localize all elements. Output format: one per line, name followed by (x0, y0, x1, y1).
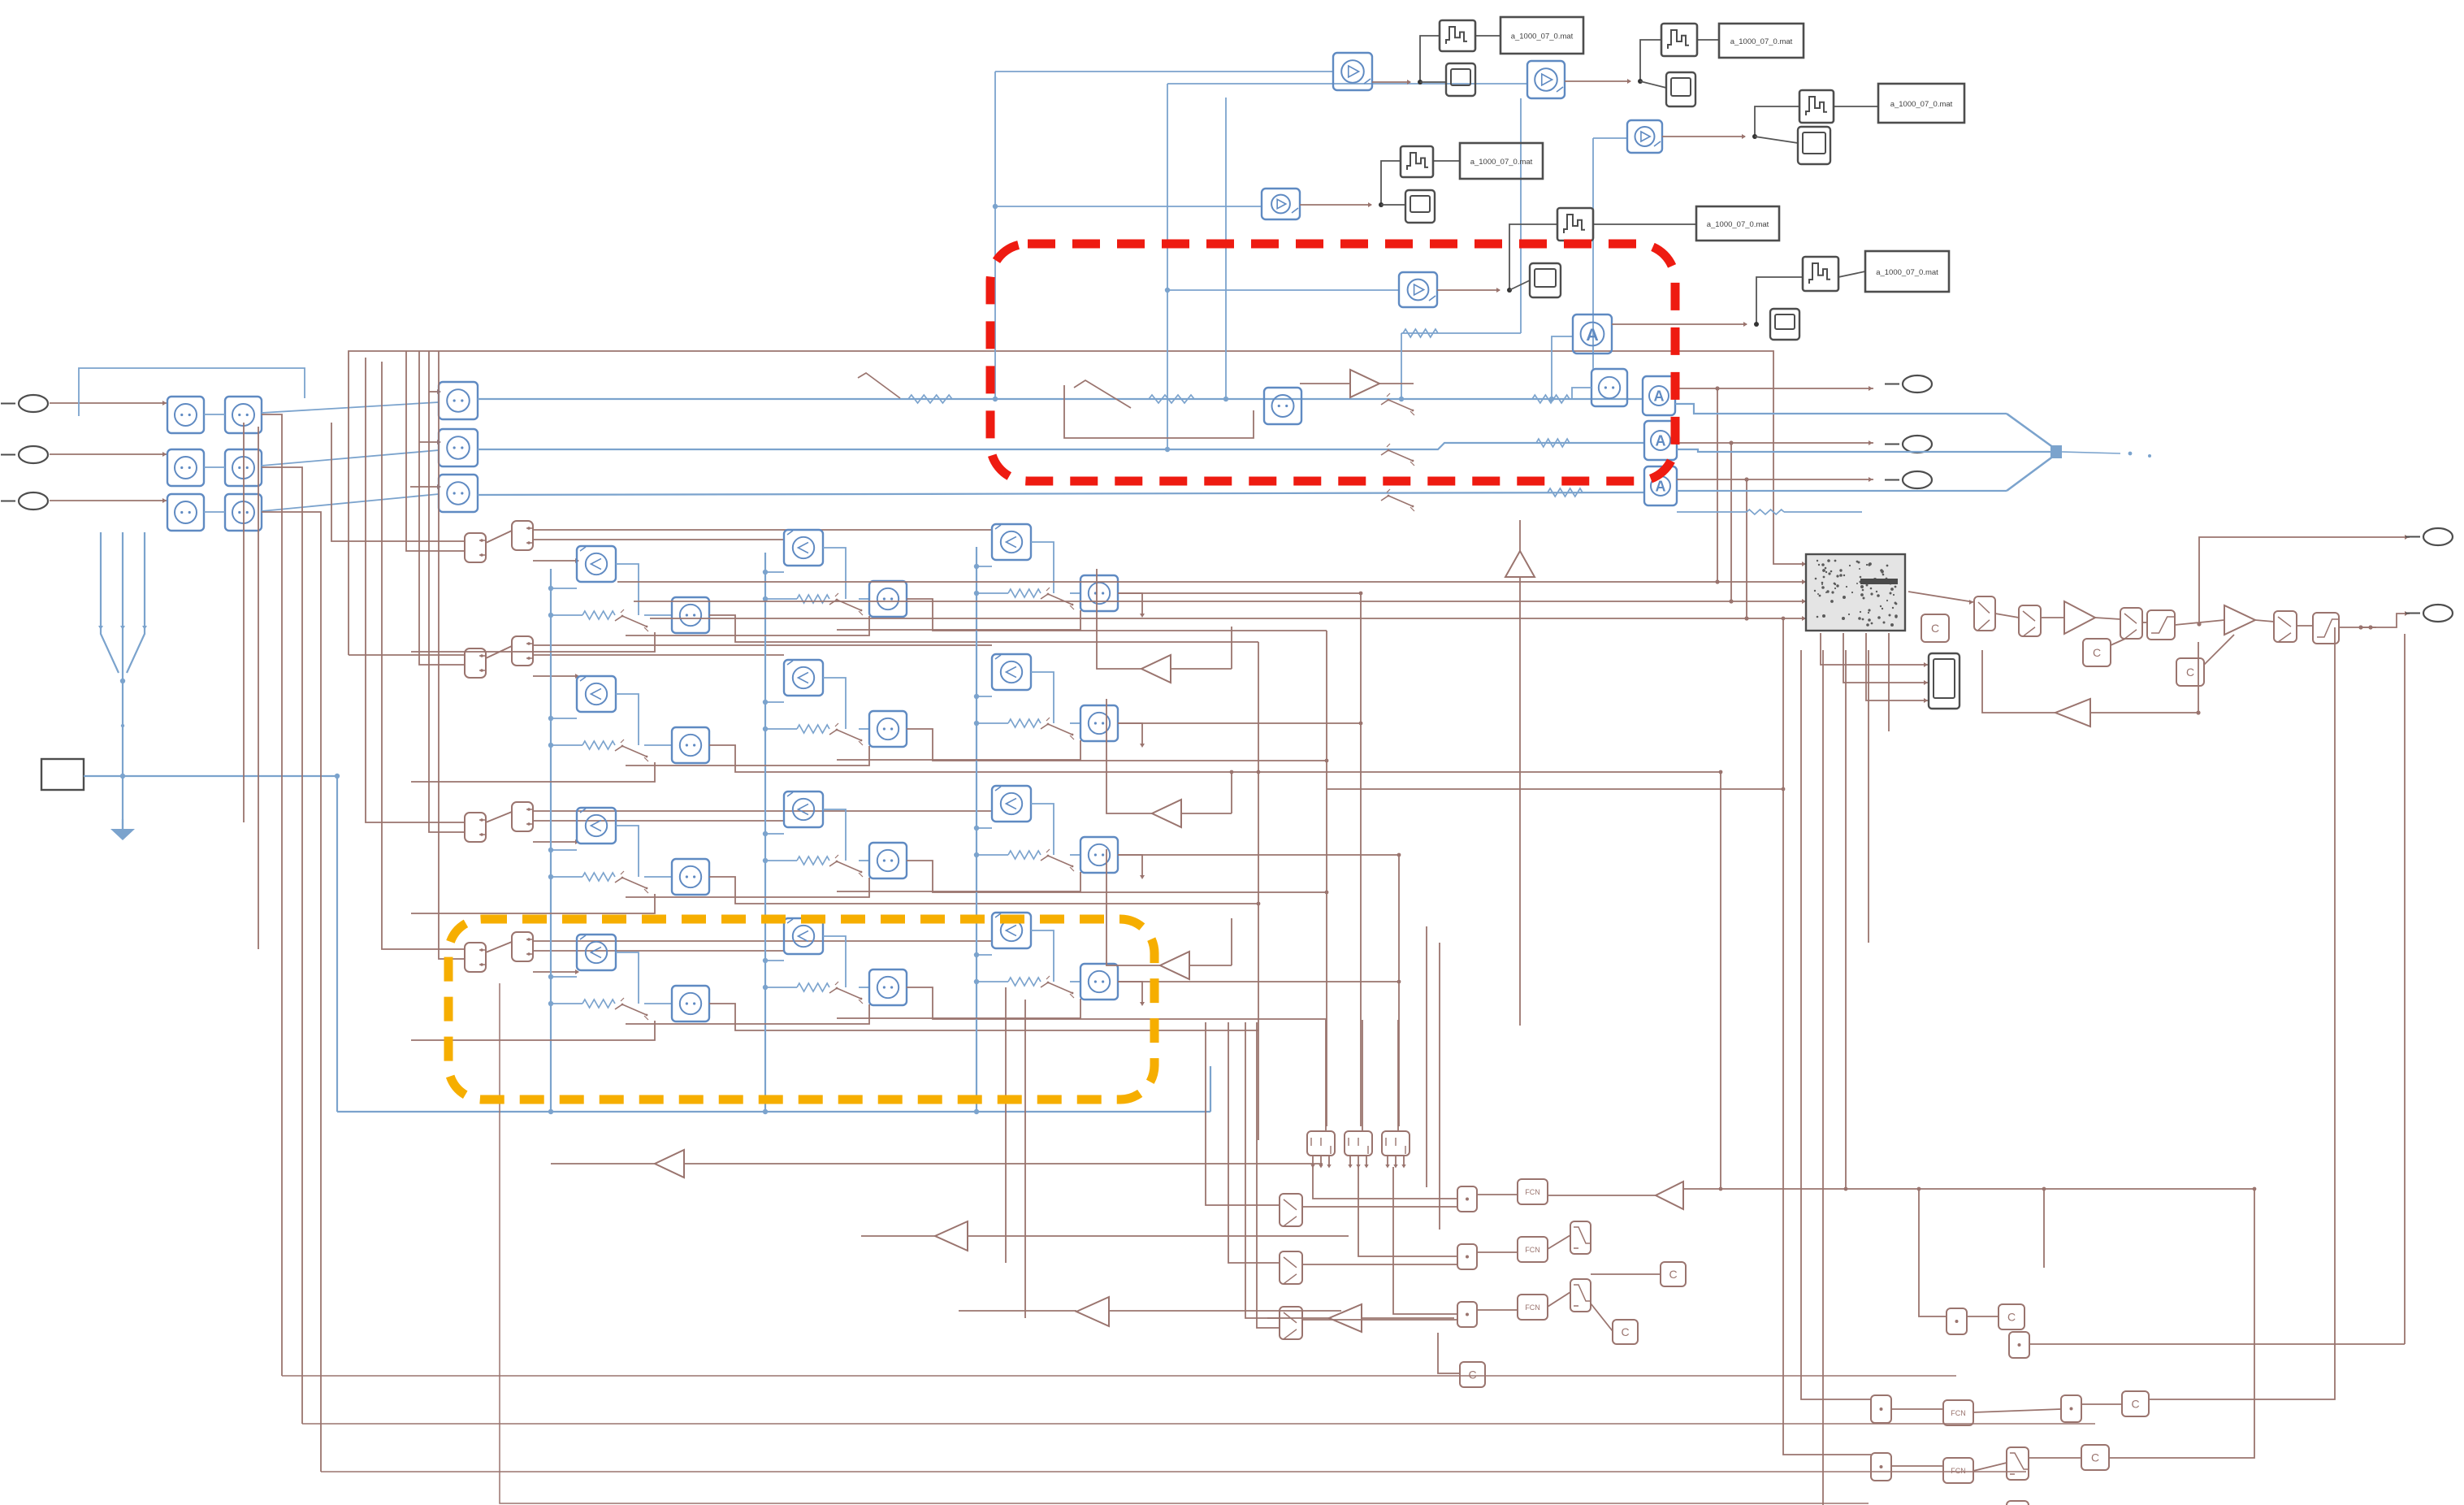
wire G1a-G1b (204, 414, 225, 415)
measurement block M1 (1333, 53, 1372, 90)
wire p1 (1477, 1194, 1518, 1195)
wire y1463 (1683, 1187, 2254, 1191)
wire pair feed r1b (406, 351, 465, 551)
fcn F1 (1518, 1179, 1548, 1204)
scope T1 (1446, 63, 1475, 96)
wire pair feed r3b (429, 351, 465, 832)
wire vert 1549 (1257, 642, 1261, 1140)
wire ctrl row1 col1 (533, 558, 579, 563)
wire grid out1 to S1 (262, 402, 439, 413)
wire col3 out r4 (1118, 980, 1401, 984)
wire vert 1675 (1360, 593, 1362, 1126)
wire neutral bottom (337, 1109, 1210, 1114)
wire pair link 3 (486, 812, 512, 822)
wire A3 out (1677, 477, 1873, 482)
selector R3 (2120, 608, 2142, 639)
svg-text:FCN: FCN (1525, 1246, 1540, 1254)
load cell col2 row1 (626, 530, 1327, 635)
gain bottom c (1076, 1297, 1109, 1326)
wire f3 (1548, 1292, 1570, 1307)
wire machine out4 (1888, 633, 1890, 731)
wire pair link 2 (486, 646, 512, 658)
wire ctrl row4 long b (533, 950, 784, 952)
to-file block T4 (1401, 146, 1433, 177)
wire pair feed r4b (439, 351, 465, 959)
wire gba (551, 1163, 1323, 1165)
wire out2 (2361, 611, 2410, 627)
selector L1 (1280, 1194, 1302, 1226)
product P2 (1457, 1244, 1477, 1269)
wire M3 vert (1593, 138, 1627, 369)
wire ctrl row3 col1 (533, 839, 579, 844)
wire machine in 2 (617, 386, 1806, 584)
wire pair feed r4 (382, 362, 465, 949)
wire machine in 3 (634, 440, 1806, 604)
fcn F2 (1518, 1237, 1548, 1262)
from tag P3b (512, 802, 533, 831)
selector R2 (2019, 605, 2041, 636)
wire gbb (861, 1235, 1349, 1237)
wire f2 (1548, 1235, 1570, 1249)
wire bottom bus 3 (321, 1471, 2026, 1472)
wire blue vert aux (1223, 98, 1228, 401)
measurement block M5 (1399, 272, 1437, 307)
wire neutral vertical (336, 776, 338, 1112)
to-file block T2 (1661, 24, 1697, 56)
input port In1 (1, 395, 48, 412)
wire bc feed 2 (1362, 1020, 1363, 1131)
wire grid out3 to S3 (262, 494, 439, 511)
output port Oc (1885, 471, 1932, 488)
resistor bus2 (1536, 439, 1570, 447)
load cell col2 row3 (626, 792, 1327, 897)
svg-text:FCN: FCN (1951, 1409, 1966, 1417)
from tag P1b (512, 521, 533, 550)
wire ctrl vert 3 (262, 512, 321, 1472)
wire S3 ctrl in (410, 484, 441, 489)
measurement block G2b (225, 449, 262, 486)
demux funnel (98, 532, 147, 829)
switch Wq2 (2007, 1501, 2029, 1505)
wire loop resistor top (1399, 98, 1521, 401)
wire bus phase B (478, 443, 1644, 449)
product Q1 (1947, 1308, 1967, 1334)
wire A1 out (1675, 386, 1873, 391)
measurement block M6a (1573, 314, 1612, 353)
wire long mid a (1258, 770, 1722, 774)
wire sel out 1 (1302, 1206, 1457, 1208)
wires T4 (1300, 161, 1460, 207)
wire col3 out r1 (1118, 592, 1362, 596)
constant Cm3 (1438, 1333, 1485, 1387)
load cell col3 row1 (837, 524, 1145, 630)
product Q3 (1871, 1395, 1891, 1423)
measurement block G3b (225, 494, 262, 531)
measurement block G1b (225, 397, 262, 433)
wire v2960 (2404, 634, 2406, 1344)
wire grid out2 to S2 (262, 450, 439, 466)
file label T4 (1460, 143, 1543, 179)
gain triangle row4 (1106, 849, 1232, 979)
wire r3 (2095, 618, 2120, 619)
fcn Fq2 (1943, 1458, 1973, 1483)
wire r4 (2142, 622, 2147, 623)
from tag P2b (512, 636, 533, 666)
bus creator B2 (1345, 1131, 1372, 1156)
wire bottom bus 2 (302, 1423, 2095, 1425)
wire r8 (2339, 625, 2376, 629)
wire bc feed 3 (1397, 1020, 1399, 1131)
wire ctrl row4 long a (533, 940, 992, 942)
wire sel feed 3 (1245, 1022, 1280, 1318)
wire bc drop 1 (1313, 1167, 1457, 1199)
wire ctrl row3 long a (533, 810, 992, 812)
wire col3 out r2 (1118, 722, 1362, 726)
load cell col3 row4 (837, 913, 1145, 1018)
product Q4 (2061, 1395, 2081, 1422)
constant Cm2 (1613, 1320, 1638, 1344)
wire blue vert M2 (1165, 84, 1527, 452)
wire G3a-G3b (204, 511, 225, 513)
measurement block S1 (439, 382, 478, 419)
gain triangle red box (1300, 370, 1414, 397)
wires T5 (1437, 224, 1696, 293)
wire pair feed r2 (349, 654, 465, 656)
measurement block MI (1264, 388, 1301, 424)
svg-text:a_1000_07_0.mat: a_1000_07_0.mat (1511, 33, 1574, 41)
product Q2 (2009, 1332, 2029, 1358)
ammeter A2 (1644, 421, 1677, 460)
wire S2 ctrl in (419, 440, 441, 445)
output port Oa (1885, 375, 1932, 393)
block battery (41, 759, 84, 790)
wire pair link 1 (486, 531, 512, 543)
wire v2874 (2149, 627, 2335, 1399)
wire cc (2204, 635, 2234, 665)
svg-text:C: C (2186, 666, 2194, 679)
wire v2244 (1823, 650, 1871, 1505)
svg-text:C: C (1669, 1268, 1677, 1281)
wire r5 (2175, 620, 2224, 627)
measurement block G1a (167, 397, 204, 433)
from tag P2a (465, 648, 486, 678)
saturation S1 (2147, 610, 2175, 640)
scope T2 (1666, 72, 1695, 106)
wire sel out 3 (1302, 1319, 1457, 1321)
wire bottom bus 4 (500, 983, 1869, 1503)
wire battery to bus (84, 774, 340, 779)
wire p3 (1477, 1309, 1518, 1311)
wire G2a-G2b (204, 466, 225, 468)
wire ctrl vert 2 (262, 467, 302, 1424)
wire r1 (1995, 614, 2019, 618)
wire blue stub up (1210, 1066, 1211, 1112)
wire pair feed r3 (366, 358, 465, 822)
selector R4 (2274, 611, 2297, 642)
scope T3 (1798, 127, 1830, 164)
svg-text:C: C (2093, 646, 2101, 659)
wire w1 (1591, 1273, 1661, 1275)
svg-text:a_1000_07_0.mat: a_1000_07_0.mat (1730, 37, 1793, 46)
wire q2 (2029, 1343, 2405, 1345)
svg-text:A: A (1654, 388, 1665, 405)
wire ctrl vert extra2 (258, 427, 259, 949)
to-file block T3 (1799, 90, 1834, 123)
breaker bus3 (1381, 489, 1414, 511)
wire v2516 (2042, 1187, 2046, 1268)
measurement block G3a (167, 494, 204, 531)
ammeter A1 (1643, 376, 1675, 415)
wire v2775 (2109, 1187, 2256, 1458)
wire bc feed 1 (1325, 1020, 1327, 1131)
from tag P1a (465, 533, 486, 562)
fcn F3 (1518, 1295, 1548, 1320)
measurement block RMS (1591, 369, 1627, 406)
svg-text:a_1000_07_0.mat: a_1000_07_0.mat (1890, 100, 1953, 109)
wire v2195 (1782, 617, 1871, 1455)
wire blue left loop (79, 368, 305, 416)
wire v2362 (1917, 1187, 1947, 1316)
product P3 (1457, 1302, 1477, 1327)
switch W1 (1570, 1221, 1591, 1254)
wire pair feed r2b (419, 351, 465, 665)
wire pair feed r1 (331, 423, 465, 541)
load cell col1 row2 (411, 676, 1258, 782)
file label T2 (1719, 24, 1804, 58)
wire M6a tap (1549, 336, 1573, 401)
gain bottom a (655, 1150, 684, 1178)
wire v2272 (1845, 650, 1847, 1189)
wire ctrl vert 1 (262, 414, 282, 1376)
wire RMS tap (1572, 388, 1591, 399)
svg-text:a_1000_07_0.mat: a_1000_07_0.mat (1470, 158, 1533, 167)
wire q4 (1973, 1409, 2061, 1412)
svg-text:FCN: FCN (1525, 1303, 1540, 1312)
wires T3 (1662, 106, 1878, 143)
file label T1 (1500, 17, 1583, 54)
load cell col3 row2 (837, 654, 1145, 760)
gain mid right (1656, 1182, 1683, 1209)
wire gbd (1267, 1317, 1454, 1319)
constant Cb (2083, 639, 2111, 666)
wire q1 (1967, 1316, 1998, 1317)
ammeter A3 (1644, 466, 1677, 505)
wire M4 input (993, 204, 1262, 209)
wire sel out 2 (1302, 1264, 1457, 1265)
wire bottom bus 1 (282, 1375, 1956, 1377)
svg-text:C: C (1931, 622, 1939, 635)
wire machine out3 (1866, 633, 1929, 703)
machine block (1806, 554, 1905, 631)
wire ctrl row4 col1 (533, 969, 579, 974)
svg-text:FCN: FCN (1525, 1188, 1540, 1196)
measurement block M2 (1527, 61, 1565, 98)
selector R1 (1974, 596, 1995, 631)
ground (110, 819, 135, 840)
wire bus phase A (478, 398, 1643, 400)
from tag P3a (465, 813, 486, 842)
wire ctrl row1 long b (533, 539, 784, 540)
input port In3 (1, 492, 48, 510)
wire gbc (959, 1310, 1341, 1312)
wire r6 (2255, 620, 2274, 622)
product Q5 (1871, 1453, 1891, 1481)
wire v2300 (1868, 650, 1869, 943)
wire long mid b (1327, 787, 1785, 792)
wire ctrl row2 long a (533, 644, 992, 646)
resistor bus1 (1532, 395, 1570, 403)
wire q8 (2029, 1457, 2081, 1459)
load cell col2 row2 (626, 660, 1327, 766)
gain feedback (2055, 699, 2090, 726)
measurement block M3 (1627, 120, 1662, 153)
svg-text:FCN: FCN (1951, 1467, 1966, 1475)
svg-text:A: A (1656, 433, 1666, 449)
load cell col3 row3 (837, 786, 1145, 891)
wire ctrl row2 col1 (533, 674, 579, 679)
constant Cc (2176, 658, 2204, 686)
wire grid drop b (1439, 943, 1440, 1230)
wire bus vertical col3 (976, 547, 977, 1112)
gain chain 2 (2224, 605, 2255, 635)
orange dashed box (448, 919, 1154, 1099)
wire ctrl row2 long b (533, 654, 784, 656)
wire r7 (2297, 625, 2313, 627)
breaker bus1 (1381, 393, 1414, 415)
wire In1 to grid (50, 401, 167, 406)
wires T6 (1612, 271, 1865, 327)
wire sel feed 1 (1206, 1022, 1280, 1205)
switch W2 (1570, 1279, 1591, 1312)
load cell col1 row3 (411, 808, 1258, 913)
bus creator B3 (1382, 1131, 1410, 1156)
scope T4 (1405, 190, 1435, 223)
wire M5 input (1165, 288, 1399, 293)
wire machine out2 (1843, 633, 1929, 685)
wire q7 (1973, 1463, 2007, 1471)
file label T6 (1865, 251, 1949, 292)
output port Ob (1885, 436, 1932, 453)
wire ctrl row3 long b (533, 820, 784, 822)
selector L3 (1280, 1307, 1302, 1339)
constant C0 (1921, 614, 1949, 642)
wires T2 (1565, 40, 1719, 88)
scope T5 (1530, 263, 1561, 297)
input port In2 (1, 446, 48, 463)
saturation S2 (2313, 613, 2339, 644)
to-file block T5 (1557, 208, 1593, 241)
fcn Fq1 (1943, 1400, 1973, 1425)
wire long mid a2 (1720, 772, 1721, 1189)
wire blue below (1677, 510, 1862, 514)
scope machine (1929, 653, 1960, 709)
breaker enclosure (1064, 380, 1254, 438)
wire grid drop d (1024, 1000, 1026, 1318)
gain triangle row2 (1097, 569, 1232, 683)
product P1 (1457, 1186, 1477, 1212)
svg-text:A: A (1586, 324, 1599, 345)
bus creator pins (1310, 1156, 1405, 1169)
wire vert 1722 (1398, 855, 1400, 1126)
wire In2 to grid (50, 452, 167, 457)
wire q6 (1891, 1465, 1943, 1467)
file label T5 (1696, 206, 1779, 241)
constant Cm1 (1661, 1262, 1686, 1286)
wire long feedback top (349, 351, 1806, 655)
load cell col1 row4 (411, 935, 1258, 1040)
resistor bus3 (1548, 488, 1583, 497)
gain bottom d (1329, 1304, 1362, 1332)
selector L2 (1280, 1251, 1302, 1284)
gain triangle row3 (1106, 699, 1233, 827)
wire w2 (1591, 1303, 1613, 1331)
breaker small left (858, 373, 952, 403)
wire ctrl row1 long a (533, 529, 992, 531)
wire bc drop 3 (1393, 1167, 1457, 1314)
wire col3 out r3 (1118, 853, 1401, 857)
measurement block G2a (167, 449, 204, 486)
load cell col2 row4 (626, 918, 1327, 1024)
constant Cq3 (2081, 1445, 2109, 1470)
wire bc drop 2 (1358, 1167, 1457, 1256)
to-file block T6 (1803, 257, 1838, 291)
red dashed box (990, 244, 1675, 481)
wire ctrl vert extra1 (243, 423, 245, 822)
wire A2 out (1677, 440, 1873, 445)
from tag P4a (465, 943, 486, 972)
wire blue vert M1 (993, 72, 1333, 401)
gain bottom b (935, 1221, 968, 1251)
wire fb out top (2199, 535, 2410, 625)
wire r2 (2041, 617, 2064, 618)
scope T6 (1770, 309, 1799, 340)
wire bus vertical col1 (550, 569, 552, 1112)
constant Cq1 (1998, 1304, 2024, 1329)
from tag P4b (512, 932, 533, 961)
wire v2217 (1801, 650, 1871, 1399)
measurement block S3 (439, 475, 478, 512)
wire gm (1548, 1195, 1656, 1196)
wire sel feed 4 (1257, 1022, 1280, 1328)
wire grid drop c (1005, 987, 1007, 1263)
output port Oe (2406, 605, 2453, 622)
to-file block T1 (1440, 20, 1475, 51)
wire machine out1 (1821, 633, 1929, 667)
switch Wq1 (2007, 1447, 2029, 1480)
svg-text:a_1000_07_0.mat: a_1000_07_0.mat (1707, 220, 1769, 229)
file label T3 (1878, 84, 1964, 123)
wire mux in A (1675, 404, 2007, 414)
measurement block M4 (1262, 189, 1300, 219)
svg-text:C: C (1621, 1325, 1629, 1338)
wire q3 (1891, 1408, 1943, 1410)
wire mux in C (1677, 490, 2007, 492)
svg-text:C: C (2131, 1398, 2139, 1411)
mux right (2007, 414, 2151, 491)
svg-text:a_1000_07_0.mat: a_1000_07_0.mat (1876, 268, 1938, 277)
wire vert 1633 (1325, 631, 1329, 1126)
wire In3 to grid (50, 498, 167, 503)
load cell col1 row1 (411, 546, 1258, 652)
wire p2 (1477, 1251, 1518, 1253)
measurement block S2 (439, 429, 478, 466)
svg-text:C: C (2007, 1311, 2016, 1324)
wire pair link 4 (486, 942, 512, 952)
wire fb (1982, 642, 2201, 715)
wires T1 (1372, 36, 1500, 85)
bus creator B1 (1307, 1131, 1335, 1156)
wire bus phase C (478, 492, 1644, 495)
